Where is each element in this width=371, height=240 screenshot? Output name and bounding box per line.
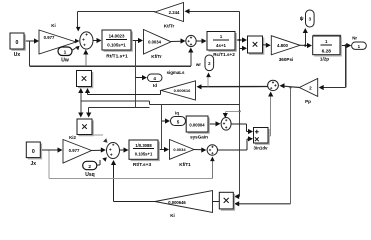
svg-text:0.105s+1: 0.105s+1: [135, 152, 153, 157]
svg-text:2: 2: [88, 164, 91, 170]
svg-text:14.0023: 14.0023: [109, 34, 125, 39]
sum S2: [186, 35, 196, 46]
svg-text:Usq: Usq: [85, 172, 94, 178]
wire stub up into sum S1 bottom: [85, 51, 87, 66]
svg-text:sigmaLs: sigmaLs: [167, 70, 185, 75]
wire psir long vertical down: [239, 40, 241, 197]
transfer fn TF1 14.0023/(0.105s+1): [104, 32, 133, 52]
wire Usd branch to sum S6 bottom: [48, 150, 50, 178]
wire sum S5 output across to gain sigmaLs: [201, 86, 268, 88]
svg-text:6.28: 6.28: [322, 48, 332, 54]
node junction wr at Pp wire: [289, 86, 291, 88]
svg-text:0.000616: 0.000616: [174, 88, 191, 93]
wire gain Ki2 to sum S3: [92, 149, 103, 151]
svg-text:Rt/T1.s+1: Rt/T1.s+1: [106, 54, 128, 60]
svg-text:iq: iq: [175, 110, 179, 115]
svg-text:Kt/Tr: Kt/Tr: [164, 23, 175, 28]
product X4: [221, 194, 235, 211]
svg-text:Nr: Nr: [352, 35, 357, 40]
gain Kf/T1 value 0.0034: [170, 140, 195, 160]
sum S5: [268, 80, 279, 90]
svg-text:1/2p: 1/2p: [320, 56, 329, 61]
svg-text:3in1dv: 3in1dv: [254, 145, 268, 150]
wire branch iq up from TF3 output: [161, 105, 163, 150]
svg-text:sysGain: sysGain: [190, 134, 208, 139]
svg-text:0: 0: [16, 40, 19, 46]
svg-text:0.00004: 0.00004: [189, 122, 205, 127]
svg-text:Kf/Tr: Kf/Tr: [151, 54, 162, 59]
wire TF1 to gain Kf/Tr: [131, 40, 140, 42]
svg-text:360Psi: 360Psi: [279, 57, 294, 62]
outport wr value 2: [205, 55, 214, 71]
wire integrator to outport Nr: [340, 45, 351, 47]
gain Pp value 2: [299, 79, 317, 97]
svg-text:2.244: 2.244: [169, 10, 180, 15]
sum block B1 plus times: [255, 129, 270, 145]
product X1: [78, 72, 93, 88]
integrator 1/6.28s: [313, 36, 340, 55]
svg-text:Uw: Uw: [61, 58, 69, 64]
svg-text:0.0034: 0.0034: [173, 147, 186, 152]
wire wr stub up to outport wr: [207, 77, 209, 87]
wire gain Kt/Tr output to sum S1 top: [77, 11, 155, 13]
wire psir branch across to products X1 X2: [150, 104, 240, 106]
svg-text:Jx: Jx: [31, 161, 37, 167]
wire psir bottom into product X4 input 1: [238, 196, 240, 198]
svg-text:Id: Id: [153, 83, 157, 88]
svg-text:0.977: 0.977: [69, 148, 80, 153]
sum S3: [107, 143, 120, 159]
wire sigmaLs output across to product X1 input b: [160, 90, 162, 94]
gain Ki value 0.977: [39, 30, 76, 54]
wire gain Kf/T1 to sum S6: [194, 149, 203, 151]
wire gain Ki to sum S1: [76, 40, 77, 43]
wire constant Jx to gain Ki2: [40, 149, 59, 151]
svg-text:4: 4: [153, 76, 156, 81]
wire TF3 to gain Kf/T1: [158, 149, 166, 151]
svg-text:Ki: Ki: [51, 23, 55, 28]
wire sum S6 to block B1 input 2: [217, 149, 247, 151]
wire speed feedback down to gain Pp: [345, 46, 347, 88]
constant Jx value 0: [28, 144, 42, 160]
wire product X5 to gain 360Psi: [263, 44, 268, 46]
svg-text:Ki: Ki: [170, 213, 175, 218]
node junction psir mid: [238, 110, 240, 112]
transfer fn TF2 1/(4s+1): [209, 33, 237, 52]
svg-text:1: 1: [64, 50, 67, 56]
svg-text:0.000646: 0.000646: [168, 200, 186, 205]
gain Kf/Tr value 0.0034: [144, 30, 172, 55]
wire product X2 output to sum S3 top: [92, 134, 103, 136]
node junction psir at TF2 output: [238, 39, 240, 41]
wire Ux to gain Ki: [24, 40, 36, 42]
svg-text:4.800: 4.800: [277, 43, 289, 48]
svg-text:Rt/T.s+3: Rt/T.s+3: [133, 162, 152, 168]
inport Usq value 2: [83, 161, 97, 169]
wire sum S1 to transfer fn TF1: [93, 40, 98, 42]
wire iq stub to outport iq: [162, 120, 167, 122]
outport iq value 5: [171, 117, 186, 126]
wire sum S4 to block B1 input 1: [231, 123, 246, 125]
gain Ki2 value 0.977: [63, 140, 92, 164]
svg-text:Ux: Ux: [14, 52, 21, 58]
node junction at integrator output: [345, 44, 347, 46]
outport psi value 3: [306, 10, 315, 27]
wire block B1 output up to sum S5: [268, 135, 271, 137]
wire isd across to product X2 input b: [89, 107, 150, 109]
wire branch isd down from TF1 output: [135, 41, 137, 108]
wire TF2 to product X1 input 1: [235, 39, 243, 41]
wire gain 360Psi to integrator: [300, 44, 308, 46]
gain 360Psi value 4.800: [271, 36, 300, 55]
sum S1: [80, 32, 93, 49]
wire branch up to outport psi: [304, 44, 306, 46]
svg-text:ψ: ψ: [300, 16, 304, 22]
wire inport Uw to sum S1: [72, 48, 76, 50]
wire gain K4 output to sum S3 bottom: [114, 201, 156, 203]
wire psir up from node to gain Kt/Tr: [239, 11, 241, 40]
svg-text:Ki2: Ki2: [69, 135, 76, 140]
wire isd stub to outport Id: [136, 77, 144, 79]
gain K4 value 0.000646: [155, 191, 213, 213]
product X5: [249, 38, 264, 55]
wire psir stub to product X1 input 2: [240, 47, 244, 49]
svg-text:0.977: 0.977: [44, 35, 55, 40]
wire constant sysGain to sum S4: [208, 123, 217, 125]
product X2: [79, 121, 94, 137]
wire gain Pp to sum S5: [284, 86, 299, 87]
svg-text:4s+1: 4s+1: [216, 43, 226, 48]
svg-text:Kf/T1: Kf/T1: [179, 162, 191, 167]
gain Kt/Tr value 2.244: [155, 3, 184, 22]
constant sysGain value 0.00004: [188, 118, 210, 134]
transfer fn TF3 1/0.3088 over 0.105s+1: [131, 142, 160, 162]
outport Nr value 1: [352, 42, 367, 49]
constant Ux value 0: [12, 35, 26, 51]
wire sum S2 to transfer fn TF2: [196, 40, 203, 42]
sum S4: [221, 118, 231, 131]
wire branch Ux down and across to sum S2 bottom: [29, 41, 31, 66]
svg-text:Rc/T1.s+2: Rc/T1.s+2: [213, 52, 235, 57]
svg-text:0.105s+1: 0.105s+1: [107, 43, 126, 48]
svg-text:Pp: Pp: [305, 99, 311, 104]
svg-text:wr: wr: [195, 62, 201, 67]
wire wr branch down to product X4 input 2: [290, 88, 292, 204]
gain sigmaLs value 0.000616: [161, 81, 196, 100]
svg-text:0.0034: 0.0034: [148, 39, 161, 44]
svg-text:0: 0: [32, 149, 35, 155]
wire product X4 output to gain K4: [213, 200, 220, 202]
svg-text:5: 5: [177, 120, 180, 125]
wire gain Kf/Tr to sum S2: [171, 40, 182, 42]
wire psir stub down into sum S4: [225, 110, 239, 112]
svg-text:1/0.3088: 1/0.3088: [135, 143, 152, 148]
inport Uw value 1: [58, 47, 72, 56]
wire sum S3 to transfer fn TF3: [120, 149, 126, 151]
outport Id value 4: [148, 74, 163, 82]
wire inport Usq to sum S3: [97, 164, 100, 166]
sum S6: [207, 145, 217, 155]
